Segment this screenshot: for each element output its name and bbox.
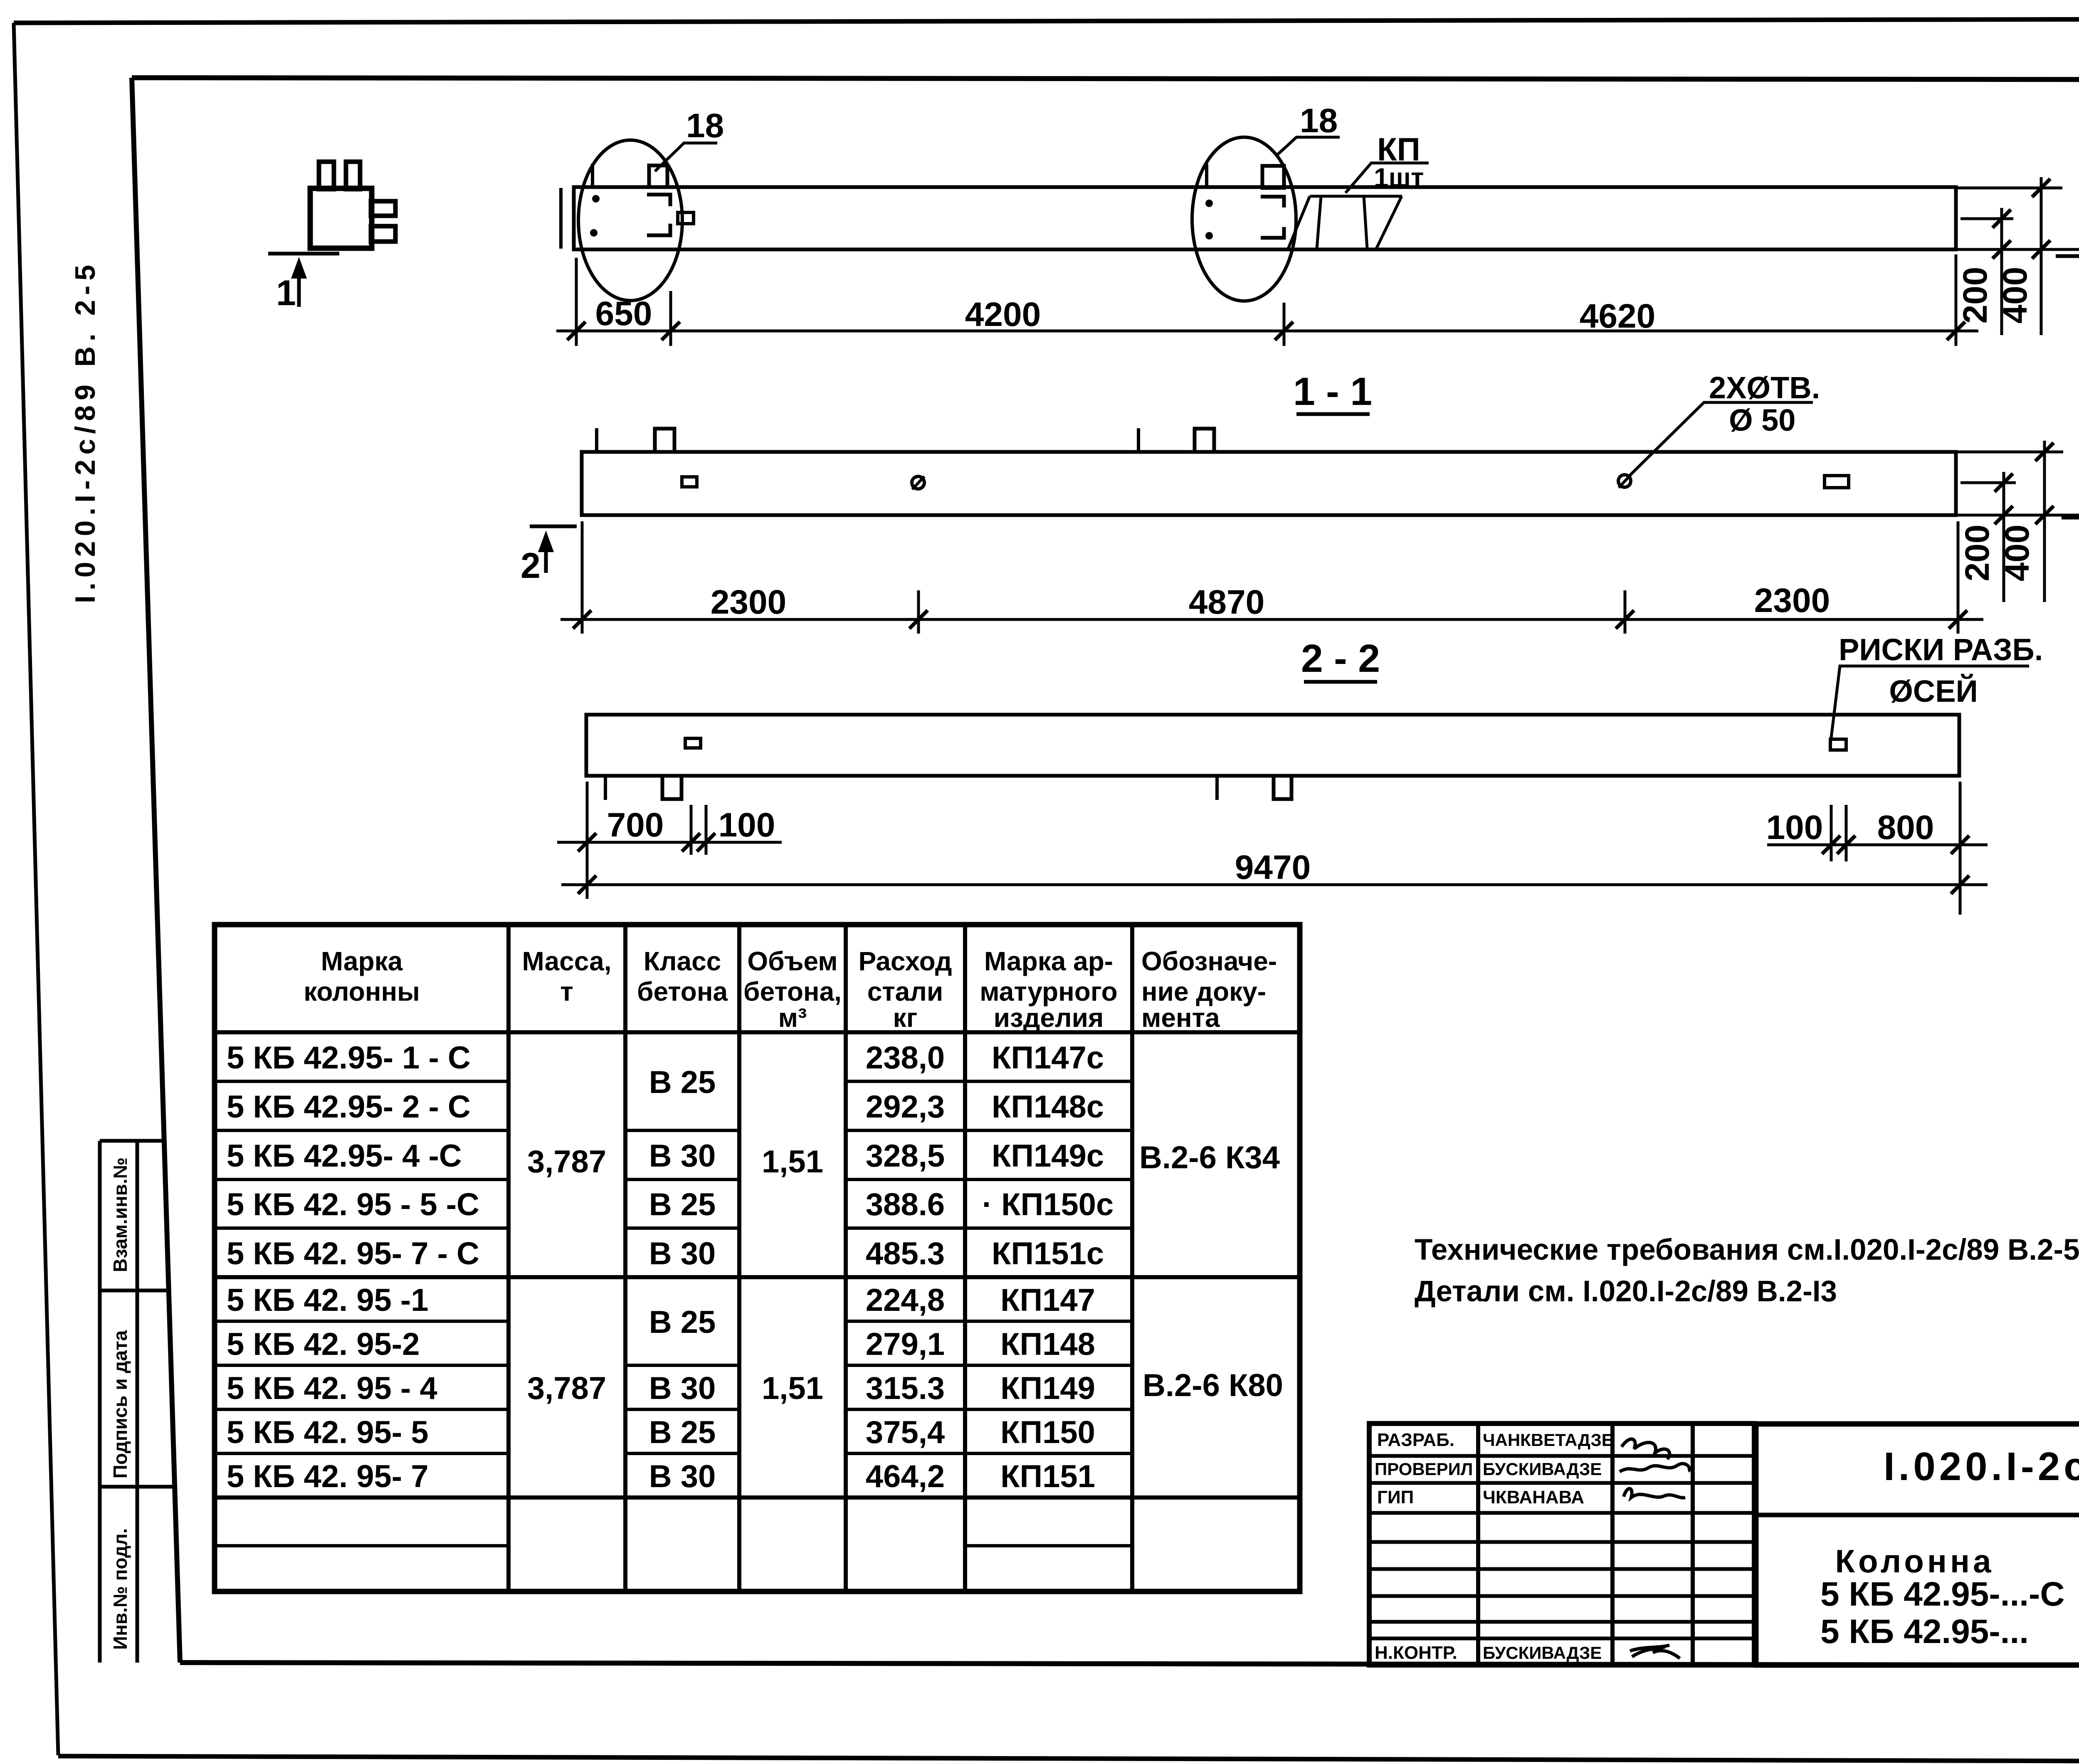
D1 title underline xyxy=(1296,412,1370,416)
svg-text:В 25: В 25 xyxy=(649,1415,716,1450)
D1 right dims mid tick xyxy=(1960,217,2013,220)
D1 left end plate line xyxy=(559,188,563,249)
D1 oval1 dot lower xyxy=(590,229,598,237)
svg-text:I.020.I-2с/89 2-5 К6I: I.020.I-2с/89 2-5 К6I xyxy=(1884,1444,2079,1489)
table col5 row lines xyxy=(846,1080,965,1083)
signature table row lines xyxy=(1369,1454,1754,1458)
D2 column body xyxy=(582,452,1956,515)
svg-text:5 КБ 42. 95 -1: 5 КБ 42. 95 -1 xyxy=(227,1283,429,1318)
drawing frame top xyxy=(132,78,2079,80)
svg-text:5 КБ 42. 95- 7: 5 КБ 42. 95- 7 xyxy=(227,1459,429,1494)
svg-text:200: 200 xyxy=(1958,525,1996,582)
D2 title underline xyxy=(1304,680,1377,684)
svg-text:Детали см. I.020.I-2с/89 В.2-I: Детали см. I.020.I-2с/89 В.2-I3 xyxy=(1415,1275,1837,1308)
svg-text:КП151: КП151 xyxy=(1000,1459,1095,1494)
D2 tenon 2 xyxy=(1195,429,1214,452)
svg-text:В 30: В 30 xyxy=(649,1138,716,1174)
D3 tenon 2 below xyxy=(1274,776,1291,799)
svg-text:Подпись и дата: Подпись и дата xyxy=(109,1330,131,1478)
D1 oval1 bracket lower xyxy=(647,224,670,235)
svg-text:2300: 2300 xyxy=(1754,582,1830,619)
D1 oval1 dot upper xyxy=(592,195,600,202)
D1 dim line 200 vertical xyxy=(2000,208,2003,335)
svg-text:279,1: 279,1 xyxy=(866,1327,945,1362)
table col6 row lines xyxy=(965,1080,1132,1083)
D1 right dim slashes xyxy=(1993,210,2011,228)
svg-text:2300: 2300 xyxy=(711,583,786,621)
D2 lifting hole right xyxy=(1618,475,1631,487)
title block outer box xyxy=(1756,1424,2079,1665)
left stamp box dividers xyxy=(100,1139,165,1143)
svg-text:18: 18 xyxy=(686,107,724,145)
svg-text:5 КБ 42. 95 - 4: 5 КБ 42. 95 - 4 xyxy=(227,1371,437,1406)
D3 embedded plate left xyxy=(685,738,701,748)
svg-text:292,3: 292,3 xyxy=(866,1089,945,1125)
svg-text:1,51: 1,51 xyxy=(762,1144,823,1179)
page outer border top xyxy=(14,19,2079,23)
D1 right dims bottom extension xyxy=(1956,248,2079,251)
D1 oval1 tenon xyxy=(649,165,667,187)
D1 leader 18 right xyxy=(1277,137,1340,155)
svg-text:ГИП: ГИП xyxy=(1377,1487,1414,1507)
D2 right dims mid tick xyxy=(1960,481,2016,484)
svg-text:3,787: 3,787 xyxy=(527,1371,606,1406)
svg-text:388.6: 388.6 xyxy=(866,1187,945,1222)
D1 section cut 1 right line xyxy=(2056,254,2079,258)
svg-text:ЧКВАНАВА: ЧКВАНАВА xyxy=(1483,1487,1584,1507)
svg-text:Расход: Расход xyxy=(858,946,952,976)
D3 right dim extension end xyxy=(1959,782,1962,915)
table col1 row lines xyxy=(215,1080,509,1083)
D2 dim line 400 vertical xyxy=(2043,441,2046,602)
svg-text:5 КБ 42.95- 1 - С: 5 КБ 42.95- 1 - С xyxy=(227,1040,471,1076)
svg-text:В 30: В 30 xyxy=(649,1371,716,1406)
D1 column body xyxy=(574,187,1956,249)
svg-text:2: 2 xyxy=(521,546,541,586)
signature table outer box xyxy=(1369,1424,1754,1665)
D3 left dim tick lines 700/100 xyxy=(690,805,693,855)
D2 rebar tick 1 xyxy=(595,428,598,452)
svg-text:315.3: 315.3 xyxy=(866,1371,945,1406)
svg-text:м³: м³ xyxy=(778,1003,807,1033)
drawing frame left xyxy=(132,78,180,1663)
svg-text:1: 1 xyxy=(276,273,296,313)
svg-text:Объем: Объем xyxy=(747,946,837,976)
D2 section cut 2 left line xyxy=(530,525,577,528)
svg-text:Технические требования см.I.02: Технические требования см.I.020.I-2с/89 … xyxy=(1415,1234,2079,1266)
svg-text:КП147с: КП147с xyxy=(992,1040,1104,1076)
svg-text:В.2-6 К80: В.2-6 К80 xyxy=(1143,1368,1283,1403)
svg-text:4620: 4620 xyxy=(1580,297,1655,335)
table outer box xyxy=(215,925,1300,1591)
D3 tenon 1 below xyxy=(662,776,681,799)
D3 rebar tick 2 below xyxy=(1215,776,1219,800)
svg-text:ЧАНКВЕТАДЗЕ: ЧАНКВЕТАДЗЕ xyxy=(1483,1430,1613,1450)
svg-text:700: 700 xyxy=(607,806,664,844)
D3 right dimension line xyxy=(1767,844,1988,846)
svg-text:В.2-6 К34: В.2-6 К34 xyxy=(1139,1140,1280,1175)
D1 bottom dimension line xyxy=(556,330,1978,333)
svg-text:5 КБ 42.95-...-С: 5 КБ 42.95-...-С xyxy=(1820,1575,2065,1613)
column cross-section top stub 2 xyxy=(346,162,360,189)
D2 right dims bottom extension xyxy=(1956,514,2079,517)
svg-text:КП148с: КП148с xyxy=(992,1089,1104,1125)
svg-text:Класс: Класс xyxy=(644,946,721,976)
svg-text:1шт: 1шт xyxy=(1374,163,1424,192)
svg-text:5 КБ 42. 95 - 5 -С: 5 КБ 42. 95 - 5 -С xyxy=(227,1187,479,1222)
svg-text:800: 800 xyxy=(1877,809,1934,846)
D1 console KP top line xyxy=(1310,195,1402,198)
signature table verticals xyxy=(1476,1424,1480,1665)
D1 leader 18 left xyxy=(655,143,717,171)
svg-text:В 30: В 30 xyxy=(649,1236,716,1271)
D1 console KP inner line 1 xyxy=(1317,196,1321,249)
svg-text:Н.КОНТР.: Н.КОНТР. xyxy=(1375,1643,1457,1663)
svg-text:1 - 1: 1 - 1 xyxy=(1293,370,1372,414)
svg-text:кг: кг xyxy=(893,1003,918,1033)
svg-text:400: 400 xyxy=(1998,525,2036,582)
D2 section cut 2 right line xyxy=(2062,516,2079,520)
svg-text:стали: стали xyxy=(867,977,943,1007)
drawing frame bottom xyxy=(180,1663,2079,1665)
table col3 row lines xyxy=(625,1129,739,1132)
page outer border left xyxy=(14,23,58,1755)
column cross-section right stub 2 xyxy=(371,226,395,242)
svg-text:матурного: матурного xyxy=(980,977,1118,1007)
D1 oval2 dot lower xyxy=(1205,232,1213,239)
svg-text:100: 100 xyxy=(1766,809,1823,846)
D2 bottom dimension line xyxy=(560,618,1983,621)
svg-text:4870: 4870 xyxy=(1189,583,1264,621)
title block designation row bottom xyxy=(1756,1513,2079,1517)
D2 section cut 2 left arrow xyxy=(544,543,548,573)
svg-text:4200: 4200 xyxy=(965,296,1041,333)
D1 dim extension right end xyxy=(1955,254,1958,346)
svg-text:3,787: 3,787 xyxy=(527,1144,606,1179)
D2 dim extension left end xyxy=(581,521,584,634)
D1 oval2 rebar tick xyxy=(1205,164,1208,188)
D1 detail oval left xyxy=(578,140,682,301)
svg-text:Взам.инв.№: Взам.инв.№ xyxy=(109,1157,131,1272)
svg-text:Инв.№ подл.: Инв.№ подл. xyxy=(109,1528,131,1650)
D1 dim extension 650 xyxy=(669,291,672,346)
D2 dim extension 2300 xyxy=(917,590,920,634)
D3 right dim slashes xyxy=(1822,836,1840,854)
D1 dim slashes xyxy=(567,322,585,340)
D1 dim line 400 vertical xyxy=(2040,177,2043,335)
svg-text:485.3: 485.3 xyxy=(866,1236,945,1271)
svg-text:2ХØТВ.: 2ХØТВ. xyxy=(1709,370,1820,405)
D1 oval2 bracket upper xyxy=(1261,197,1284,207)
left stamp column verticals xyxy=(98,1141,102,1663)
table full row line groups boundary xyxy=(215,1275,1300,1279)
svg-text:бетона,: бетона, xyxy=(743,977,842,1007)
D3 embedded plate right xyxy=(1830,739,1846,750)
svg-text:· КП150с: · КП150с xyxy=(982,1187,1114,1222)
svg-text:5 КБ 42.95- 2 - С: 5 КБ 42.95- 2 - С xyxy=(227,1089,471,1125)
svg-text:КП151с: КП151с xyxy=(992,1236,1104,1271)
D3 label underline and leader xyxy=(1831,666,2029,738)
svg-text:В 25: В 25 xyxy=(649,1187,716,1222)
svg-text:200: 200 xyxy=(1956,267,1994,324)
D2 dim extension 4870 xyxy=(1624,590,1627,634)
svg-text:изделия: изделия xyxy=(994,1003,1104,1033)
svg-text:Ø 50: Ø 50 xyxy=(1729,403,1795,437)
D1 dim extension left end xyxy=(575,258,578,346)
svg-text:5 КБ 42. 95- 7 - С: 5 КБ 42. 95- 7 - С xyxy=(227,1236,479,1271)
table column verticals xyxy=(506,925,511,1591)
D3 left dimension line xyxy=(557,841,782,844)
svg-text:328,5: 328,5 xyxy=(866,1138,945,1174)
svg-text:5 КБ 42. 95-2: 5 КБ 42. 95-2 xyxy=(227,1327,420,1362)
D1 oval2 tenon xyxy=(1262,166,1284,188)
svg-text:1,51: 1,51 xyxy=(762,1371,823,1406)
svg-text:I.020.I-2c/89 В. 2-5: I.020.I-2c/89 В. 2-5 xyxy=(69,260,101,603)
column cross-section top stub 1 xyxy=(319,162,334,189)
svg-text:РАЗРАБ.: РАЗРАБ. xyxy=(1377,1430,1454,1450)
D2 dim line 200 vertical xyxy=(2002,472,2005,602)
D1 detail oval right xyxy=(1192,137,1296,301)
table header bottom line xyxy=(215,1030,1300,1034)
D1 section cut 1 left line xyxy=(268,252,339,256)
D2 lifting hole left xyxy=(912,476,924,489)
svg-text:400: 400 xyxy=(1996,267,2034,324)
D1 label KP underline and leader xyxy=(1346,163,1429,193)
D3 left dim extension end xyxy=(586,782,589,899)
svg-text:КП149с: КП149с xyxy=(992,1138,1104,1174)
svg-text:9470: 9470 xyxy=(1235,849,1311,886)
svg-text:Марка ар-: Марка ар- xyxy=(984,946,1113,976)
svg-text:ПРОВЕРИЛ: ПРОВЕРИЛ xyxy=(1375,1459,1473,1479)
svg-text:650: 650 xyxy=(595,295,652,333)
svg-text:100: 100 xyxy=(719,806,775,844)
D1 oval1 rebar tick xyxy=(591,164,594,187)
svg-text:Масса,: Масса, xyxy=(522,946,611,976)
svg-text:Колонна: Колонна xyxy=(1835,1543,1994,1579)
svg-text:В 25: В 25 xyxy=(649,1305,716,1340)
D2 embedded plate left xyxy=(682,477,697,487)
D3 overall dim slashes xyxy=(578,876,596,894)
svg-text:5 КБ 42. 95- 5: 5 КБ 42. 95- 5 xyxy=(227,1415,429,1450)
D3 overall dimension line 9470 xyxy=(561,883,1988,886)
svg-text:БУСКИВАДЗЕ: БУСКИВАДЗЕ xyxy=(1483,1643,1602,1663)
column cross-section right stub 1 xyxy=(371,201,395,216)
D2 dim slashes xyxy=(573,610,591,629)
D3 column body xyxy=(586,715,1959,776)
D3 left dim slashes xyxy=(578,833,596,851)
svg-text:РИСКИ РАЗБ.: РИСКИ РАЗБ. xyxy=(1839,632,2043,667)
svg-text:бетона: бетона xyxy=(637,977,728,1007)
D1 right dims top extension xyxy=(1956,187,2062,190)
svg-text:Марка: Марка xyxy=(321,946,403,976)
D1 console KP inner line 2 xyxy=(1364,196,1367,249)
svg-text:Обозначе-: Обозначе- xyxy=(1141,946,1277,976)
svg-text:КП147: КП147 xyxy=(1000,1283,1095,1318)
D2 right dims top extension xyxy=(1956,451,2063,454)
D1 dim extension 4200 xyxy=(1283,303,1286,346)
D3 rebar tick 1 below xyxy=(604,776,607,800)
svg-text:КП150: КП150 xyxy=(1000,1415,1095,1450)
D1 oval1 bracket upper xyxy=(647,195,670,206)
D2 embedded plate right xyxy=(1825,476,1849,488)
svg-text:ØСЕЙ: ØСЕЙ xyxy=(1889,674,1978,708)
svg-text:464,2: 464,2 xyxy=(866,1459,945,1494)
svg-text:18: 18 xyxy=(1300,102,1338,140)
svg-text:колонны: колонны xyxy=(304,977,420,1007)
D2 dim extension right end xyxy=(1957,521,1960,634)
D2 right dim slashes xyxy=(1995,474,2013,492)
D2 rebar tick 2 xyxy=(1137,428,1140,452)
D1 embedded plate at oval1 xyxy=(678,212,694,224)
svg-text:224,8: 224,8 xyxy=(866,1283,945,1318)
svg-text:5 КБ 42.95-...: 5 КБ 42.95-... xyxy=(1820,1613,2029,1651)
D2 tenon 1 xyxy=(655,429,674,452)
svg-text:КП149: КП149 xyxy=(1000,1371,1095,1406)
svg-text:375,4: 375,4 xyxy=(866,1415,945,1450)
svg-text:т: т xyxy=(560,977,573,1007)
svg-text:2 - 2: 2 - 2 xyxy=(1301,637,1380,681)
D1 section cut 1 left arrow xyxy=(297,270,301,307)
svg-text:КП148: КП148 xyxy=(1000,1327,1095,1362)
svg-text:В 25: В 25 xyxy=(649,1065,716,1100)
D1 console KP right slant xyxy=(1376,196,1402,249)
svg-text:БУСКИВАДЗЕ: БУСКИВАДЗЕ xyxy=(1483,1459,1602,1479)
svg-text:5 КБ 42.95- 4 -С: 5 КБ 42.95- 4 -С xyxy=(227,1138,462,1174)
svg-text:238,0: 238,0 xyxy=(866,1040,945,1076)
D1 console KP left slant xyxy=(1288,196,1310,249)
D1 oval2 bracket lower xyxy=(1261,227,1284,238)
svg-text:ние доку-: ние доку- xyxy=(1141,977,1266,1007)
svg-text:В 30: В 30 xyxy=(649,1459,716,1494)
column cross-section symbol body xyxy=(310,188,372,248)
svg-text:мента: мента xyxy=(1141,1003,1220,1033)
D3 right dim tick lines 100/800 xyxy=(1830,805,1833,861)
D2 label underline and leader to hole xyxy=(1628,402,1813,477)
page outer border bottom xyxy=(58,1756,2079,1762)
D1 oval2 dot upper xyxy=(1205,200,1213,207)
